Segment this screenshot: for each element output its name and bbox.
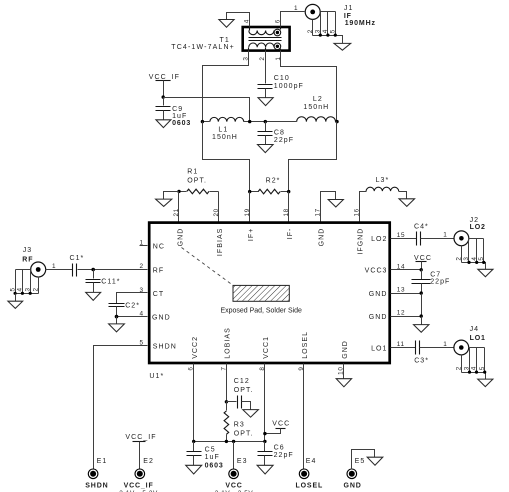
svg-text:4: 4: [471, 256, 478, 260]
inductor L3: [366, 187, 399, 191]
node C2 / pin 4 junction: [115, 315, 119, 319]
wire VCC rail bottom: [194, 441, 265, 443]
capacitor C4: [417, 232, 421, 246]
wire C1 to pin 2 RF: [78, 269, 148, 271]
ground at pin 10: [336, 379, 351, 387]
capacitor C11: [86, 270, 101, 293]
svg-text:LO1: LO1: [371, 345, 387, 352]
svg-text:1: 1: [443, 232, 447, 239]
svg-text:IFGND: IFGND: [358, 228, 365, 255]
svg-text:5: 5: [9, 287, 16, 291]
wire E3 stub: [233, 442, 235, 470]
svg-text:IF-: IF-: [287, 228, 294, 240]
ground at pin 21: [156, 199, 172, 206]
wire pin 14 VCC3: [391, 269, 422, 271]
ground at pin 17: [328, 200, 343, 208]
svg-text:C5: C5: [205, 447, 216, 454]
ground at C9: [156, 120, 171, 128]
svg-text:7: 7: [220, 367, 227, 371]
node C7 / pin13 junction: [420, 291, 423, 294]
ground at C12: [243, 410, 259, 418]
ground at C10: [258, 98, 273, 106]
svg-text:2: 2: [456, 256, 463, 260]
svg-text:C1*: C1*: [70, 255, 85, 262]
wire pin 17 to ground: [321, 192, 336, 222]
wire VCC_IF to L1/L2 rail: [164, 98, 250, 122]
svg-text:20: 20: [213, 208, 220, 216]
svg-text:8: 8: [259, 367, 266, 371]
ground at L3: [399, 199, 415, 207]
terminal E2: [135, 469, 145, 479]
svg-text:5: 5: [478, 256, 485, 260]
svg-text:VCC_IF: VCC_IF: [124, 483, 154, 490]
wire pin 13 GND: [391, 293, 422, 295]
svg-text:C9: C9: [172, 106, 183, 113]
svg-text:LOSEL: LOSEL: [296, 483, 324, 490]
node VCC_IF / C9 junction: [162, 95, 165, 98]
wire pin 9 LOSEL to E4: [303, 364, 305, 470]
wire C3 to J4: [420, 347, 454, 349]
ground at T1 pin 4: [219, 20, 234, 28]
node LOBIAS / C12 / R3 junction: [225, 400, 228, 403]
node E3 junction: [232, 440, 235, 443]
wire pin 5 SHDN to E1: [94, 346, 148, 470]
node pin12 junction: [420, 314, 423, 317]
ground at J2: [478, 269, 493, 277]
node R3 bottom junction: [225, 440, 228, 443]
svg-text:16: 16: [354, 208, 361, 216]
svg-text:3: 3: [463, 256, 470, 260]
svg-text:RF: RF: [22, 257, 33, 264]
svg-text:OPT.: OPT.: [234, 430, 254, 437]
svg-text:E2: E2: [143, 458, 154, 465]
svg-text:0603: 0603: [205, 462, 224, 469]
ground at C5: [186, 465, 202, 474]
svg-text:E1: E1: [97, 458, 108, 465]
capacitor C9: [156, 98, 171, 120]
svg-text:GND: GND: [344, 483, 362, 490]
wire pin 8 VCC1 down: [264, 364, 266, 442]
svg-text:15: 15: [397, 232, 405, 239]
resistor R3: [224, 402, 229, 442]
svg-text:R2*: R2*: [266, 177, 281, 184]
resistor R1: [179, 189, 219, 194]
wire IF- staircase to pin 18: [289, 122, 337, 192]
svg-text:C3*: C3*: [414, 358, 429, 365]
node R2 left / pin 19: [248, 190, 251, 193]
svg-text:1uF: 1uF: [205, 454, 220, 461]
capacitor C10: [258, 85, 273, 98]
svg-text:RF: RF: [153, 267, 164, 274]
svg-text:1: 1: [294, 5, 298, 12]
connector J2: [454, 231, 486, 270]
capacitor C5: [187, 442, 202, 466]
op-amp U1 mixer IC body: [149, 223, 390, 363]
svg-text:L1: L1: [218, 127, 228, 134]
svg-text:6: 6: [188, 367, 195, 371]
svg-text:GND: GND: [369, 291, 388, 298]
wire C2 junction to ground: [116, 317, 118, 324]
svg-text:GND: GND: [177, 228, 184, 247]
svg-text:TC4-1W-7ALN+: TC4-1W-7ALN+: [171, 44, 235, 51]
svg-text:3: 3: [314, 29, 321, 33]
wire pin 18: [288, 192, 290, 222]
svg-text:2: 2: [33, 287, 40, 291]
svg-text:C7: C7: [430, 271, 441, 278]
svg-text:LO1: LO1: [470, 335, 486, 342]
svg-text:GND: GND: [152, 315, 171, 322]
svg-text:C12: C12: [234, 378, 250, 385]
svg-text:NC: NC: [153, 243, 165, 250]
svg-text:5: 5: [329, 29, 336, 33]
svg-text:17: 17: [315, 208, 322, 216]
power flag VCC_IF top: [149, 74, 180, 98]
ground at C6: [257, 465, 273, 474]
wire pin 10 GND stub: [343, 364, 345, 379]
svg-text:13: 13: [397, 287, 405, 294]
wire pin12 junction to ground: [421, 317, 423, 325]
svg-text:C8: C8: [274, 129, 285, 136]
svg-text:22pF: 22pF: [274, 137, 294, 144]
wire E5 to ground: [352, 450, 375, 470]
svg-text:L3*: L3*: [376, 177, 390, 184]
node C6 / pin8 junction: [263, 440, 266, 443]
svg-text:11: 11: [397, 341, 405, 348]
svg-text:5: 5: [479, 366, 486, 370]
svg-text:R3: R3: [234, 422, 245, 429]
wire rail C8 segment: [250, 121, 297, 123]
svg-text:19: 19: [244, 208, 251, 216]
wire pin 21: [178, 192, 180, 222]
svg-text:3: 3: [464, 366, 471, 370]
capacitor C8: [258, 122, 273, 145]
svg-text:14: 14: [397, 263, 405, 270]
svg-text:R1: R1: [187, 169, 198, 176]
wire pin 20: [218, 192, 220, 222]
inductor L2: [297, 117, 337, 122]
wire C2 to pin 4: [117, 307, 148, 317]
wire pin 15 LO2 to C4: [391, 238, 417, 240]
svg-text:C6: C6: [274, 445, 285, 452]
wire L3 to ground: [399, 192, 407, 199]
svg-text:IF: IF: [344, 13, 352, 20]
wire pin 16 to L3: [360, 192, 367, 222]
svg-text:VCC2: VCC2: [192, 336, 199, 359]
svg-text:10: 10: [338, 367, 345, 375]
wire T1 pin4 to ground: [227, 13, 250, 27]
svg-text:C11*: C11*: [101, 279, 120, 286]
svg-text:9: 9: [298, 367, 305, 371]
connector J1: [305, 4, 342, 43]
svg-text:0603: 0603: [172, 120, 191, 127]
svg-text:J1: J1: [344, 5, 354, 12]
svg-text:VCC: VCC: [225, 483, 242, 490]
wire T1 pin1 to IF- node: [281, 51, 337, 122]
node C5 / pin6 junction: [192, 440, 195, 443]
pin 1 stub: [140, 245, 148, 247]
svg-text:VCC1: VCC1: [263, 336, 270, 359]
node VCC / pin14 junction: [420, 268, 423, 271]
terminal E3: [229, 469, 239, 479]
capacitor C12: [227, 396, 251, 410]
exposed pad hatched rectangle: [233, 285, 289, 301]
svg-text:VCC_IF: VCC_IF: [125, 434, 156, 441]
wire pin13 to pin12: [421, 294, 423, 317]
node C8 junction: [264, 120, 267, 123]
svg-text:J3: J3: [23, 247, 33, 254]
terminal E4: [299, 469, 309, 479]
transformer T1: [243, 27, 290, 51]
svg-text:4: 4: [471, 366, 478, 370]
svg-text:GND: GND: [369, 314, 388, 321]
node IF+ rail junction: [201, 120, 204, 123]
svg-text:VCC3: VCC3: [365, 268, 388, 275]
node VCC / pin8 junction: [263, 432, 266, 435]
svg-text:E5: E5: [355, 458, 366, 465]
svg-text:150nH: 150nH: [303, 104, 329, 111]
svg-text:18: 18: [283, 208, 290, 216]
svg-text:C4*: C4*: [414, 224, 429, 231]
svg-text:12: 12: [397, 310, 405, 317]
wire T1 pin3 to IF+ node: [203, 51, 249, 122]
ground at C2: [109, 324, 125, 332]
wire C4 to J2: [421, 238, 454, 240]
node R2 right / pin 18: [287, 190, 290, 193]
wire pin 3 CT to C2: [117, 293, 148, 304]
resistor R2: [250, 189, 289, 194]
svg-text:OPT.: OPT.: [234, 387, 254, 394]
power flag VCC right: [414, 255, 432, 270]
svg-text:E4: E4: [306, 458, 317, 465]
node VCC_IF drop junction: [248, 120, 251, 123]
capacitor C6: [258, 442, 273, 466]
svg-text:2: 2: [456, 366, 463, 370]
terminal E1: [88, 469, 98, 479]
wire pin 6 VCC2 down: [193, 364, 195, 442]
svg-text:LO2: LO2: [371, 236, 387, 243]
power flag VCC_IF at E2: [125, 434, 156, 470]
wire pin 7 LOBIAS down: [226, 364, 228, 402]
ground at E5: [367, 457, 383, 465]
svg-text:OPT.: OPT.: [187, 178, 207, 185]
svg-text:VCC: VCC: [272, 421, 290, 428]
svg-text:2: 2: [307, 29, 314, 33]
svg-text:SHDN: SHDN: [153, 343, 177, 350]
wire IF+ staircase to pin 19: [203, 122, 250, 192]
svg-text:22pF: 22pF: [274, 452, 294, 459]
svg-text:21: 21: [173, 208, 180, 216]
dashed line GND pin to exposed pad: [182, 248, 234, 286]
capacitor C2: [109, 304, 125, 307]
capacitor C7: [412, 270, 431, 294]
svg-text:4: 4: [17, 287, 24, 291]
svg-text:1: 1: [140, 239, 144, 246]
svg-text:U1*: U1*: [149, 373, 164, 380]
svg-text:E3: E3: [237, 458, 248, 465]
capacitor C3: [416, 341, 420, 355]
wire J3 to C1: [46, 269, 73, 271]
node R1 / pin21 junction: [177, 190, 180, 193]
svg-text:GND: GND: [342, 340, 349, 359]
wire T1 pin6 to J1: [281, 12, 305, 27]
svg-text:GND: GND: [319, 228, 326, 247]
svg-text:LOSEL: LOSEL: [302, 331, 309, 359]
svg-text:SHDN: SHDN: [85, 483, 108, 490]
svg-text:Exposed Pad, Solder Side: Exposed Pad, Solder Side: [221, 307, 304, 314]
ground at C11: [86, 292, 101, 300]
svg-text:3: 3: [25, 287, 32, 291]
svg-text:L2: L2: [313, 96, 323, 103]
svg-text:4: 4: [322, 29, 329, 33]
svg-text:LOBIAS: LOBIAS: [225, 327, 232, 359]
inductor L1: [203, 117, 250, 121]
svg-text:CT: CT: [153, 291, 164, 298]
connector J3: [14, 262, 46, 302]
ground at C7 chain: [414, 325, 429, 333]
svg-text:C2*: C2*: [125, 302, 140, 309]
wire T1 pin2 to C10: [265, 51, 267, 84]
ground at J4: [478, 379, 493, 387]
svg-text:190MHz: 190MHz: [345, 20, 376, 27]
power flag VCC bottom: [265, 421, 291, 434]
node C11 junction: [91, 268, 95, 272]
svg-text:22pF: 22pF: [430, 279, 450, 286]
svg-text:1: 1: [52, 263, 56, 270]
capacitor C1: [73, 264, 77, 277]
svg-text:J4: J4: [470, 326, 480, 333]
svg-text:IF+: IF+: [248, 228, 255, 241]
connector J4: [454, 340, 486, 379]
svg-text:150nH: 150nH: [212, 134, 238, 141]
svg-text:1uF: 1uF: [172, 113, 187, 120]
node IF- rail junction: [335, 120, 338, 123]
ground at C8: [258, 145, 274, 153]
wire pin 12 GND: [391, 316, 422, 318]
terminal E5: [347, 469, 357, 479]
ground at J3: [8, 301, 23, 308]
svg-text:LO2: LO2: [470, 224, 486, 231]
svg-text:1000pF: 1000pF: [274, 83, 304, 90]
ground at J1: [334, 43, 351, 50]
svg-text:IFBIAS: IFBIAS: [217, 228, 224, 256]
svg-text:1: 1: [443, 341, 447, 348]
wire pin 19: [249, 192, 251, 222]
wire pin 11 LO1 to C3: [391, 347, 416, 349]
svg-text:C10: C10: [274, 75, 290, 82]
wire pin21 ground stub: [164, 192, 179, 200]
